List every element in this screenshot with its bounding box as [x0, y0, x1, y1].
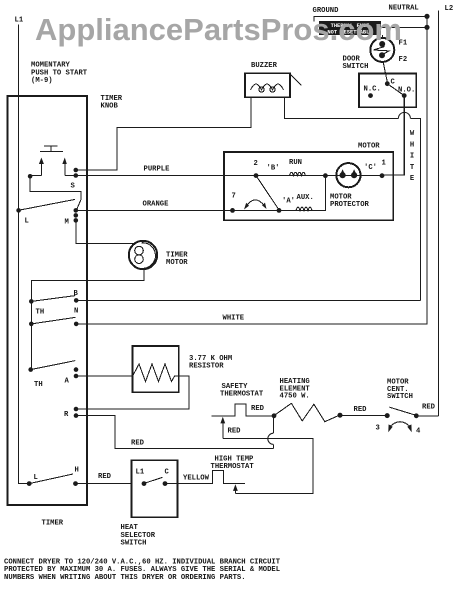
label B [74, 290, 79, 298]
node A contacts [74, 367, 79, 378]
svg-text:B: B [74, 290, 79, 298]
wire A to resistor [76, 375, 133, 377]
timer L-H arm [29, 474, 73, 484]
svg-text:C: C [165, 469, 170, 477]
wire purple S to motor pin2 [76, 175, 256, 177]
arrow terminal to safety thermostat [220, 417, 225, 439]
svg-text:TIMER: TIMER [42, 520, 64, 528]
wire red heater to cent switch [340, 415, 387, 417]
label RED (right) [422, 404, 436, 412]
label WHITE (horizontal) [223, 315, 245, 323]
wire M bottom to timer motor [76, 220, 135, 243]
label AUX. [297, 194, 314, 202]
label GROUND [313, 7, 340, 15]
label RED (mid) [354, 406, 368, 414]
svg-text:AUX.: AUX. [297, 194, 314, 202]
svg-text:L1: L1 [136, 469, 145, 477]
resistor R1 zigzag element [133, 364, 179, 382]
svg-text:3: 3 [376, 425, 380, 433]
label MOTOR CENT. SWITCH [387, 379, 413, 402]
label L2 [445, 5, 454, 13]
label 3.77 K OHM RESISTOR [189, 355, 232, 370]
label 7 [232, 193, 236, 201]
svg-text:A: A [65, 378, 70, 386]
bottom note text [4, 558, 281, 582]
wire buzzer right leg with hop to B [285, 97, 421, 300]
svg-text:N: N [74, 308, 78, 316]
safety thermostat symbol [211, 404, 274, 416]
wire red R lower to heater junction [76, 416, 273, 449]
wire orange M to motor pin7 [76, 209, 233, 211]
label L1 (heat sel) [136, 469, 145, 477]
svg-text:E: E [410, 175, 415, 183]
node heating element right [338, 413, 343, 418]
label TIMER KNOB [101, 95, 123, 111]
svg-text:H: H [410, 141, 414, 149]
label R [64, 411, 69, 419]
svg-text:PURPLE: PURPLE [144, 166, 171, 174]
timer box outline [8, 96, 88, 505]
svg-text:RUN: RUN [289, 159, 302, 167]
label ORANGE [143, 201, 170, 209]
wire fuse to door switch C [383, 62, 387, 82]
svg-text:T: T [410, 164, 415, 172]
node cent switch 3 [385, 413, 390, 418]
wire S to buzzer left leg [76, 97, 251, 170]
svg-text:W: W [410, 130, 415, 138]
svg-text:L: L [34, 474, 38, 482]
label SAFETY THERMOSTAT [220, 383, 264, 398]
label N.C. [364, 86, 381, 94]
label 'A' [282, 198, 295, 206]
label TH (lower) [34, 381, 43, 389]
svg-text:'C': 'C' [364, 164, 377, 172]
wire red cent switch to L2 [416, 415, 438, 417]
node cent switch 4 [414, 413, 419, 418]
label PURPLE [144, 166, 171, 174]
svg-text:SWITCH: SWITCH [121, 540, 147, 548]
wire thermal fuse label line [381, 26, 427, 28]
resistor R1 box [133, 346, 179, 392]
svg-text:L: L [25, 218, 29, 226]
node M contacts [74, 208, 79, 223]
node S contacts [74, 168, 79, 178]
label 3 [376, 425, 380, 433]
wire timer arm L to M [19, 199, 75, 210]
label N.O. [398, 87, 415, 95]
svg-text:4: 4 [416, 428, 421, 436]
svg-text:TH: TH [34, 381, 43, 389]
wire heater junction drop with hop [272, 416, 274, 433]
wire B to buzzer riser [76, 299, 420, 301]
svg-text:L2: L2 [445, 5, 454, 13]
label HIGH TEMP THERMOSTAT [211, 456, 255, 472]
node motor pin 7 [230, 208, 235, 213]
label 'C' [364, 164, 377, 172]
node N contact [74, 322, 79, 327]
label M [65, 219, 69, 227]
svg-text:MOMENTARY: MOMENTARY [31, 62, 71, 70]
svg-text:I: I [410, 153, 414, 161]
label MOTOR [358, 143, 380, 151]
timer motor circle [129, 241, 157, 269]
watermark AppliancePartsPros.com [35, 12, 402, 48]
label H [75, 467, 79, 475]
door switch box [359, 73, 416, 107]
wire motor run winding line [224, 175, 382, 177]
svg-text:CONNECT DRYER TO 120/240 V.A.C: CONNECT DRYER TO 120/240 V.A.C.,60 HZ. I… [4, 558, 281, 566]
node door switch N.O. [402, 93, 407, 98]
wire L2 line [437, 11, 439, 416]
label BUZZER [251, 62, 278, 70]
node B contact [74, 298, 79, 303]
node L1 label [15, 17, 24, 25]
node neutral junction upper [424, 14, 429, 19]
svg-text:MOTOR: MOTOR [358, 143, 380, 151]
wire red mid horizontal [223, 439, 313, 494]
node neutral junction lower [424, 25, 429, 30]
svg-text:MOTOR: MOTOR [166, 259, 188, 267]
svg-text:BUZZER: BUZZER [251, 62, 278, 70]
label 'B' [267, 165, 280, 173]
node heat selector L1 [142, 481, 147, 486]
label RED (arrow) [228, 428, 242, 436]
svg-text:PROTECTED BY MAXIMUM 30 A. FUS: PROTECTED BY MAXIMUM 30 A. FUSES. ALWAYS… [4, 566, 280, 574]
node L contact [16, 208, 21, 213]
label 1 [382, 160, 387, 168]
motor protector circle [336, 163, 360, 187]
svg-text:RED: RED [131, 440, 145, 448]
wire door N.O. down to motor pin1 [382, 96, 404, 175]
label S [71, 183, 76, 191]
node heat selector C [163, 481, 168, 486]
label TIMER (bottom) [42, 520, 64, 528]
heat selector switch box [132, 460, 178, 517]
svg-text:ORANGE: ORANGE [143, 201, 170, 209]
label C (door) [391, 79, 396, 87]
label N [74, 308, 78, 316]
svg-text:RED: RED [422, 404, 436, 412]
wire ground to neutral [314, 16, 427, 21]
node TH2 contact [28, 367, 33, 372]
wire timer motor return to rail [31, 268, 144, 369]
svg-text:(M-9): (M-9) [31, 77, 53, 85]
node R contacts [74, 407, 79, 418]
push switch contact arrows [39, 158, 67, 176]
label YELLOW [183, 475, 210, 483]
label NEUTRAL [389, 5, 419, 13]
svg-text:4750 W.: 4750 W. [280, 393, 310, 401]
svg-text:N.O.: N.O. [398, 87, 415, 95]
wire push left contact to M linkage [30, 176, 81, 210]
svg-text:R: R [64, 411, 69, 419]
svg-text:RESISTOR: RESISTOR [189, 362, 224, 370]
svg-text:RED: RED [228, 428, 242, 436]
svg-text:PUSH TO START: PUSH TO START [31, 69, 88, 77]
svg-text:KNOB: KNOB [101, 103, 119, 111]
label MOTOR PROTECTOR [330, 194, 370, 209]
label RUN [289, 159, 302, 167]
motor box [224, 152, 393, 220]
momentary push-to-start switch plunger [40, 146, 63, 152]
buzzer coil [251, 84, 284, 92]
label L (bottom) [34, 474, 38, 482]
label RED (timer H) [98, 473, 112, 481]
svg-text:1: 1 [382, 160, 387, 168]
wire L1 vertical feed [19, 25, 30, 484]
svg-text:RED: RED [354, 406, 368, 414]
wire fuse stem [381, 35, 383, 37]
svg-text:H: H [75, 467, 79, 475]
thermal fuse label box [319, 21, 381, 36]
svg-text:L1: L1 [15, 17, 24, 25]
run winding coil [290, 172, 306, 175]
svg-text:M: M [65, 219, 69, 227]
node timer H [73, 481, 78, 486]
label HEATING ELEMENT 4750 W. [280, 378, 311, 401]
label RED (left bottom) [131, 440, 145, 448]
svg-text:HEAT: HEAT [121, 524, 139, 532]
svg-text:THERMOSTAT: THERMOSTAT [220, 390, 264, 398]
svg-text:S: S [71, 183, 76, 191]
label WHITE (vertical) [410, 130, 415, 183]
aux winding coil [296, 207, 312, 210]
svg-text:SELECTOR: SELECTOR [121, 532, 156, 540]
wire TH1 arm to B [31, 296, 75, 302]
node door switch C [385, 81, 390, 86]
svg-text:C: C [391, 79, 396, 87]
node door switch N.C. [368, 93, 373, 98]
motor internal switch arm B to A [256, 176, 279, 210]
svg-text:YELLOW: YELLOW [183, 475, 210, 483]
node timer L (bottom) [27, 481, 32, 486]
wire yellow with high temp thermostat bump [165, 470, 245, 483]
node motor pin 2 [254, 173, 259, 178]
node run/aux junction [323, 173, 328, 178]
svg-text:RED: RED [98, 473, 112, 481]
svg-text:F2: F2 [399, 56, 408, 64]
door switch arm C to N.O. [387, 84, 404, 96]
label L [25, 218, 29, 226]
wire white N to neutral [76, 16, 427, 324]
wire TH arm to N [31, 317, 75, 324]
svg-text:'A': 'A' [282, 198, 295, 206]
label F2 [399, 56, 408, 64]
svg-text:NUMBERS WHEN WRITING ABOUT THI: NUMBERS WHEN WRITING ABOUT THIS DRYER OR… [4, 574, 246, 582]
wire push switch stubs [30, 174, 76, 176]
svg-text:SWITCH: SWITCH [343, 63, 369, 71]
buzzer box [245, 73, 290, 97]
svg-text:2: 2 [254, 160, 258, 168]
svg-text:N.C.: N.C. [364, 86, 381, 94]
heat selector arm [145, 477, 163, 483]
node arm contact A [277, 208, 282, 213]
wire resistor return to R upper [76, 376, 189, 409]
node push switch left contact [28, 174, 33, 179]
label 4 [416, 428, 421, 436]
node rail mid contact [29, 322, 34, 327]
svg-text:THERMOSTAT: THERMOSTAT [211, 463, 255, 471]
arrow terminal to high temp thermostat [233, 484, 238, 493]
node TH1 contact [29, 299, 34, 304]
label RED (safety) [251, 405, 265, 413]
label A [65, 378, 70, 386]
svg-text:PROTECTOR: PROTECTOR [330, 201, 370, 209]
cent switch swing arc [388, 422, 411, 433]
wire H to heat selector [76, 483, 132, 485]
heating element 4750W zigzag [274, 403, 340, 421]
wire TH2 arm to A [31, 361, 76, 370]
label TIMER MOTOR [166, 252, 188, 268]
label MOMENTARY PUSH TO START (M-9) [31, 62, 88, 86]
motor centrifugal switch arm [390, 407, 417, 415]
label TH (upper) [36, 309, 45, 317]
label DOOR SWITCH [343, 56, 369, 72]
svg-text:WHITE: WHITE [223, 315, 245, 323]
svg-text:RED: RED [251, 405, 265, 413]
svg-text:TH: TH [36, 309, 45, 317]
wire motor aux winding line [233, 176, 326, 211]
thermal fuse F1-F2 circle [370, 38, 394, 62]
node heating element left junction [272, 413, 277, 418]
label F1 [399, 40, 408, 48]
label C (heat sel) [165, 469, 170, 477]
label HEAT SELECTOR SWITCH [121, 524, 156, 548]
svg-text:SWITCH: SWITCH [387, 393, 413, 401]
buzzer striker [290, 74, 302, 86]
label 2 [254, 160, 258, 168]
svg-text:'B': 'B' [267, 165, 280, 173]
node motor pin 1 [380, 173, 385, 178]
motor arm swing arc [244, 200, 267, 210]
svg-text:7: 7 [232, 193, 236, 201]
